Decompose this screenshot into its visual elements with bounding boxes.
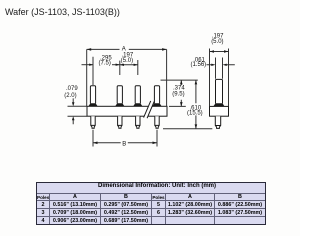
svg-text:(1.56): (1.56): [191, 62, 207, 68]
arrowhead B left: [93, 142, 98, 145]
pin 3 bottom tail (front view): [136, 116, 140, 128]
pin 2 centre extension line: [119, 61, 121, 75]
table row poles 3 / 6: [37, 208, 49, 216]
arrowhead .061 left: [211, 64, 215, 66]
arrowhead .374 down: [180, 102, 183, 106]
dimension B extension line right: [156, 130, 158, 147]
dimension .197 side line: [210, 51, 229, 53]
arrowhead .079 down: [72, 102, 75, 106]
pin 1 top (front view): [90, 86, 95, 104]
break symbol slash 1: [144, 101, 151, 118]
pin width extension lines: [216, 58, 223, 79]
pin top (side view): [216, 79, 223, 103]
extension line pin-top level to side view: [161, 79, 198, 81]
dimension table: [36, 182, 266, 225]
wafer body (side view): [210, 106, 229, 116]
dimension .295 line right segment: [112, 64, 120, 66]
svg-text:(5.0): (5.0): [121, 58, 133, 64]
dimension .079 extension lines: [68, 106, 88, 116]
pin 3 top (front view): [135, 86, 140, 104]
break symbol white gap: [144, 101, 155, 118]
table row poles 4: [37, 216, 49, 224]
svg-text:.079: .079: [66, 86, 78, 92]
dimension .610 line: [195, 80, 197, 129]
extension line pin-tip level: [163, 128, 212, 130]
dimension B extension line left: [92, 130, 94, 147]
arrowhead .374 up: [180, 80, 183, 84]
pin base taper side (black): [213, 103, 224, 106]
arrowhead .197 front right: [134, 64, 138, 66]
pin 1 base taper (black): [88, 103, 97, 106]
pin 4 top (front view): [154, 86, 159, 104]
extension line body-top level: [169, 105, 186, 107]
arrowhead .610 down: [195, 124, 198, 128]
dimension A extension line left: [86, 49, 88, 106]
arrowhead B right: [153, 142, 158, 145]
pin 2 bottom tail (front view): [118, 116, 122, 128]
dimension .079 arrow stems: [72, 98, 74, 124]
pin 1 centre extension line: [92, 57, 94, 85]
arrowhead .197 side left: [210, 50, 215, 53]
pin 2 base taper (black): [115, 103, 124, 106]
arrowhead A right: [162, 48, 167, 51]
pin 4 base taper (black): [152, 103, 161, 106]
arrowhead .295 left: [89, 64, 93, 66]
svg-text:(7.5): (7.5): [99, 60, 111, 66]
dimension .061 arrow stems: [207, 64, 235, 66]
dimension .197 side extension lines: [210, 49, 229, 107]
dimension A extension line right: [166, 49, 168, 106]
arrowhead .295 right: [116, 64, 120, 66]
pin 2 top (front view): [117, 86, 122, 104]
wafer body (front view): [87, 106, 167, 116]
table column header row: [37, 193, 49, 200]
break symbol slash 2: [147, 102, 154, 119]
arrowhead .197 side right: [224, 50, 229, 53]
arrowhead .610 up: [195, 80, 198, 84]
dimension .374 line: [180, 80, 182, 106]
svg-text:(5.0): (5.0): [211, 39, 223, 45]
arrowhead .197 front left: [120, 64, 124, 66]
dimension A line: [87, 48, 167, 50]
svg-text:B: B: [122, 141, 126, 147]
dimension .295 line left tail: [82, 64, 94, 66]
dimension .197 line (front): [120, 64, 138, 66]
arrowhead .079 up: [72, 116, 75, 120]
table row poles 2 / 5: [37, 200, 49, 208]
arrowhead A left: [87, 48, 92, 51]
pin 3 centre extension line: [137, 60, 139, 75]
dimension B line: [93, 142, 157, 144]
arrowhead .061 right: [223, 64, 227, 66]
title Wafer (JS-1103, JS-1103(B)): [5, 7, 120, 17]
pin 1 bottom tail (front view): [91, 116, 95, 128]
pin bottom tail (side view): [215, 116, 220, 128]
svg-text:(9.5): (9.5): [172, 91, 184, 97]
pin 3 base taper (black): [133, 103, 142, 106]
svg-text:(15.5): (15.5): [187, 110, 203, 116]
svg-text:(2.0): (2.0): [64, 93, 76, 99]
pin 4 bottom tail (front view): [155, 116, 159, 128]
